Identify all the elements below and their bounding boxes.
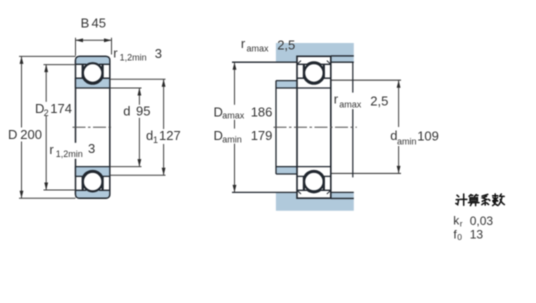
shaft right section: end edge xyxy=(352,62,354,177)
svg-text:B: B xyxy=(81,15,90,30)
damin arrows xyxy=(397,80,401,88)
svg-text:95: 95 xyxy=(136,103,150,118)
svg-text:186: 186 xyxy=(251,104,273,119)
chamfer marks outer bottom xyxy=(297,191,330,194)
svg-text:200: 200 xyxy=(20,127,42,142)
dimension damin line xyxy=(398,80,400,173)
label r_amax 2,5 middle right xyxy=(333,93,388,110)
数 xyxy=(493,194,505,206)
housing bottom block (blue) xyxy=(276,192,354,210)
shaft right section: top/bottom lines (also d_amin extension lines) xyxy=(331,80,401,173)
label damin 109 xyxy=(388,127,442,146)
svg-text:0: 0 xyxy=(457,232,462,242)
系 xyxy=(482,194,490,205)
shaft left: end line + shoulder lines xyxy=(275,81,277,174)
svg-text:127: 127 xyxy=(159,128,181,143)
housing shoulder lines top xyxy=(232,61,354,63)
chamfer marks outer top xyxy=(297,61,330,64)
svg-text:r: r xyxy=(460,219,463,229)
ball top (right figure) xyxy=(304,63,324,83)
ball top xyxy=(83,63,103,83)
Da arrows xyxy=(233,62,237,69)
heading 计算系数 (drawn as paths) xyxy=(456,194,505,206)
svg-text:174: 174 xyxy=(50,101,72,116)
dimension B line xyxy=(76,39,112,41)
svg-text:amin: amin xyxy=(397,137,417,147)
svg-text:r: r xyxy=(113,45,118,60)
outer ring bottom race (right figure) xyxy=(297,190,331,192)
label D 200 xyxy=(6,128,40,142)
计 xyxy=(456,194,467,205)
svg-text:2,5: 2,5 xyxy=(370,94,388,109)
svg-text:179: 179 xyxy=(251,128,273,143)
svg-text:1,2min: 1,2min xyxy=(120,52,147,62)
shaft shoulder band top left (blue) xyxy=(276,81,297,88)
label Damin 179 xyxy=(211,129,272,144)
svg-text:2,5: 2,5 xyxy=(277,37,295,52)
dimension D2 line xyxy=(45,65,47,190)
outer ring top (blue) xyxy=(76,56,110,66)
dimension D line xyxy=(21,56,23,198)
B arrows xyxy=(76,38,84,42)
svg-text:r: r xyxy=(241,36,246,51)
svg-text:1: 1 xyxy=(153,135,158,145)
svg-text:r: r xyxy=(49,142,54,157)
label Damax 186 xyxy=(211,105,272,120)
ball bottom (right figure) xyxy=(304,172,324,192)
outer ring bottom (blue) xyxy=(76,188,110,198)
bearing body outline (right figure) xyxy=(297,56,331,198)
dimension d1 line xyxy=(163,79,165,175)
svg-text:45: 45 xyxy=(92,15,106,30)
race side bars bottom xyxy=(83,177,103,191)
svg-text:109: 109 xyxy=(417,129,439,144)
inner ring top (blue) xyxy=(76,78,110,88)
inner ring top race (right figure) xyxy=(297,78,331,84)
dimension Da line xyxy=(234,62,236,192)
inner ring bottom race (right figure) xyxy=(297,170,331,176)
label d1 127 xyxy=(144,129,184,144)
dimension D: extension lines xyxy=(19,56,76,198)
housing top block (blue) xyxy=(276,43,354,62)
svg-text:amax: amax xyxy=(247,43,270,53)
d arrows xyxy=(137,88,141,96)
D2 arrows xyxy=(44,65,48,73)
svg-text:1,2min: 1,2min xyxy=(56,149,83,159)
centerline left figure xyxy=(73,126,114,128)
race side bars bottom (right figure) xyxy=(304,177,324,191)
svg-text:3: 3 xyxy=(155,46,162,61)
D arrows xyxy=(20,56,24,64)
dimension d: extension lines xyxy=(110,88,142,167)
svg-text:amax: amax xyxy=(222,111,245,121)
dimension B: extension lines xyxy=(76,38,112,56)
svg-text:amin: amin xyxy=(222,134,242,144)
dimension d line xyxy=(138,88,140,167)
svg-text:amax: amax xyxy=(339,100,362,110)
label D2 174 xyxy=(33,102,66,116)
bearing body outline (left figure) xyxy=(76,56,110,198)
dimension D2: extension lines xyxy=(44,65,76,190)
svg-text:3: 3 xyxy=(88,141,95,156)
ball bottom xyxy=(83,172,103,192)
race side bars top (right figure) xyxy=(304,65,324,79)
d1 arrows xyxy=(162,79,166,87)
svg-text:0,03: 0,03 xyxy=(470,214,494,228)
housing shoulder lines bottom xyxy=(232,191,354,193)
bore surface lines right figure xyxy=(297,88,331,167)
label d 95 xyxy=(121,105,153,118)
svg-text:2: 2 xyxy=(44,108,49,118)
dimension d1: extension lines xyxy=(110,79,166,175)
算 xyxy=(468,195,479,206)
centerline right figure xyxy=(274,126,357,128)
svg-text:D: D xyxy=(8,127,17,142)
svg-text:13: 13 xyxy=(470,228,484,242)
inner ring bottom (blue) xyxy=(76,167,110,177)
housing bore line over right lobe xyxy=(331,56,354,199)
race side bars top xyxy=(83,65,103,79)
outer ring top race (right figure) xyxy=(297,62,331,64)
svg-text:d: d xyxy=(123,103,130,118)
label r1,2min 3 middle left xyxy=(48,143,98,159)
shaft shoulder band bottom left (blue) xyxy=(276,167,297,174)
svg-text:r: r xyxy=(334,92,339,107)
